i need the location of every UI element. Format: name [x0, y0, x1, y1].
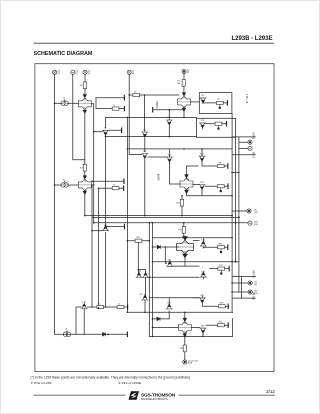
junction I1 [54, 103, 56, 105]
wire row y277.2 [149, 276, 199, 278]
wire bus y261.8 [153, 261, 239, 263]
svg-text:[2]: [2] [88, 73, 91, 75]
wire P2 vertical [73, 74, 85, 159]
svg-text:T13: T13 [201, 120, 205, 122]
svg-text:(*) In the L293 these points a: (*) In the L293 these points are not ext… [31, 376, 191, 380]
wire pair T31T32 bottom [184, 257, 186, 266]
resistor R14 [97, 305, 104, 308]
wire R12 to pair T31T32 [184, 233, 185, 238]
transistor T34 [136, 272, 142, 278]
vertical rail x152.5 [152, 223, 154, 337]
wire T23 base [129, 154, 142, 156]
wire P1 to I1 [55, 102, 63, 104]
wire R19 row [206, 324, 217, 326]
substrate mark cell6 [220, 249, 221, 253]
cell9 resistor R19 [218, 324, 225, 327]
svg-text:(11) [6]: (11) [6] [253, 270, 256, 278]
wire pair T8T9 right vertex to box1 [191, 101, 200, 103]
resistor R7 [216, 101, 223, 104]
wire P1 vertical rail [54, 74, 56, 334]
bar cell7 [228, 266, 230, 270]
wire R15 to bar [124, 306, 127, 308]
bar box1 [226, 101, 228, 105]
cell3 transistor T29 [199, 156, 205, 162]
svg-text:T30: T30 [200, 182, 204, 184]
bar base row4 [123, 186, 125, 190]
wire R20 to GND pin [184, 352, 186, 360]
wire T35 emitter drop [144, 300, 146, 312]
wire T33 base [165, 247, 166, 263]
vertical rail x127.4 [126, 117, 128, 312]
wire mirror link [95, 98, 97, 109]
svg-text:3/12: 3/12 [266, 389, 275, 394]
resistor R20 [183, 345, 186, 352]
resistor R17 [218, 267, 225, 270]
cell4 transistor T30 [199, 185, 205, 191]
wire cell3 row [187, 165, 199, 167]
transistor T35 [142, 294, 148, 300]
resistor R3 [83, 82, 86, 89]
svg-text:T26: T26 [186, 188, 190, 190]
wire R19 to bar [224, 324, 227, 326]
wire T24 collector [169, 149, 171, 157]
input pair T25 T26 [180, 174, 193, 193]
transistor T24 [166, 157, 172, 163]
transistor T40 [102, 225, 108, 231]
wire T12 to R7 [203, 102, 216, 104]
diode D1 [157, 245, 160, 248]
wire T7 base [94, 131, 103, 133]
transistor T13 [199, 123, 205, 129]
wire T41 to R14 [87, 306, 97, 308]
pin VSS (5) [182, 69, 186, 73]
wire I2 to pair [67, 184, 78, 186]
wire cell4 link [205, 185, 217, 187]
transistor T33 [167, 260, 173, 266]
wire mirror base row 2 left [96, 108, 112, 110]
wire rail link y172.5 [232, 172, 239, 174]
resistor R6 [112, 107, 119, 110]
wire R6 to bar [119, 108, 124, 110]
substrate mark box2 [218, 125, 219, 129]
svg-text:T32: T32 [184, 251, 188, 253]
output box 2 [197, 118, 236, 137]
resistor R4 [83, 164, 86, 171]
svg-text:1k: 1k [134, 91, 136, 93]
wire R21 drop [137, 242, 139, 273]
svg-text:T12: T12 [201, 95, 205, 97]
svg-text:[8]: [8] [254, 284, 257, 286]
wire pair T31T32 base [153, 246, 158, 248]
wire T7 emitter to bus [105, 135, 107, 138]
wire pin OUT1b [239, 147, 248, 149]
wire bar to pair T8T9 bottom [154, 109, 185, 111]
wire cell6 top row [153, 238, 233, 241]
wire pair T3T4 down to mid bus [84, 194, 86, 215]
wire row y297.7 [149, 297, 199, 299]
pin IN2 (4) [127, 70, 131, 74]
bar base T9 [152, 108, 154, 112]
transistor T10 [166, 120, 172, 126]
wire R16 to bar [224, 246, 227, 248]
wire cell8 top [193, 296, 202, 298]
bar cell8 [227, 304, 229, 308]
resistor R12 [182, 226, 185, 233]
svg-text:MICROELECTRONICS: MICROELECTRONICS [141, 398, 168, 401]
wire P4 down [128, 74, 130, 154]
input pair T1 T2 [78, 94, 91, 113]
resistor R18 [218, 305, 225, 308]
junction pair2 right [91, 184, 93, 186]
bar bottom bus [126, 332, 128, 336]
svg-text:[11]: [11] [254, 212, 258, 214]
wire pair T37T38 base [153, 327, 179, 329]
wire R17 row [210, 268, 218, 270]
wire pair T1T2 to R4 [84, 113, 86, 164]
wire right corner links [241, 277, 243, 299]
svg-text:[13]: [13] [254, 293, 258, 295]
input pair T8 T9 [178, 92, 191, 111]
wire T23 emitter to bus1 [144, 159, 146, 215]
output box 1 [199, 93, 232, 114]
svg-text:T46: T46 [201, 325, 205, 327]
bar cell6 [227, 245, 229, 249]
wire P4 to R2 [129, 94, 133, 96]
wire cell3 top bus [127, 148, 232, 150]
wire T41 base row [76, 307, 81, 334]
wire cell3 link [202, 161, 217, 166]
wire T33 row [173, 265, 199, 267]
mid bus 2 [94, 222, 248, 224]
svg-text:T33: T33 [168, 259, 172, 261]
svg-text:10k: 10k [177, 83, 180, 85]
wire T40 collector bar [106, 226, 124, 228]
wire R21 row [127, 240, 149, 242]
wire cell6 link [203, 246, 217, 249]
wire R8 to bar [222, 123, 226, 125]
pin OUT2b [248, 221, 252, 225]
svg-text:[2]: [2] [57, 73, 60, 75]
vertical rail x100 [98, 188, 100, 307]
schematic frame [35, 64, 274, 372]
bar cell9 [227, 323, 229, 327]
right rail B [235, 137, 237, 261]
wire R17 to bar [225, 268, 229, 270]
wire pair4 to T30 [193, 184, 199, 186]
wire mirror base row 1 [96, 97, 124, 99]
svg-text:T38: T38 [184, 332, 188, 334]
current source I1 [61, 101, 68, 105]
wire R18 to bar [225, 305, 227, 307]
wire R3 to pair T1T2 [84, 89, 86, 95]
transistor T34b [142, 272, 148, 278]
wire R11 bottom to bus [181, 206, 183, 216]
wire I1 to pair [67, 102, 78, 104]
transistor T7 [102, 130, 108, 136]
resistor R2 [133, 93, 140, 96]
wire pair2 right rail [91, 185, 93, 307]
wire T40 stub [105, 233, 107, 307]
wire R9 to bar [224, 165, 227, 167]
svg-text:SCHEMATIC DIAGRAM: SCHEMATIC DIAGRAM [34, 51, 93, 57]
transistor T12 [200, 98, 206, 104]
bar box2 [226, 122, 228, 126]
wire pair T37T38 to T46 [191, 327, 200, 329]
svg-text:T11: T11 [143, 129, 147, 131]
mid bus 3 [92, 216, 239, 218]
right rail A [231, 114, 233, 313]
svg-text:R18: R18 [220, 303, 225, 305]
bottom bus y334.3 [55, 333, 127, 335]
svg-text:② Pins of L293E.: ② Pins of L293E. [118, 381, 142, 385]
wire pin OUT3b [232, 291, 248, 293]
wire R13 to bar [119, 187, 123, 189]
svg-text:I2: I2 [63, 179, 66, 181]
current source I3 [63, 332, 70, 336]
pin OUT3b [248, 290, 252, 294]
wire pin OUT1a [239, 141, 248, 143]
wire pin label stub 2 [232, 154, 255, 156]
svg-text:R19: R19 [219, 322, 224, 324]
svg-text:I3: I3 [66, 329, 69, 331]
wire T36 stub [168, 298, 170, 319]
svg-text:R16: R16 [219, 244, 224, 246]
svg-text:T44: T44 [201, 271, 205, 273]
wire P5 stub [183, 74, 185, 80]
pin GND [183, 360, 187, 364]
substrate mark cell7 [221, 270, 222, 274]
wire pin label stub 1 [232, 136, 255, 138]
resistor R21 [135, 239, 142, 242]
svg-text:[9]: [9] [132, 73, 135, 75]
svg-text:[6,N]: [6,N] [188, 363, 193, 365]
svg-text:T41: T41 [82, 302, 86, 304]
wire T13 to R8 [206, 123, 216, 125]
svg-text:[14]: [14] [254, 224, 258, 226]
bar T40 [124, 224, 126, 228]
wire R7 to bar [223, 102, 226, 104]
wire bus2 to R12 [183, 223, 185, 227]
junction I2 [54, 184, 56, 186]
diode D2 [157, 317, 160, 320]
bar T7 collector [121, 128, 123, 132]
diode D3 [103, 333, 106, 336]
wire pin OUT3a [232, 282, 248, 284]
current source I2 [61, 183, 68, 187]
svg-text:1k: 1k [113, 105, 115, 107]
pin OUT1b [248, 146, 252, 150]
resistor R8 [215, 122, 222, 125]
svg-text:① Pins of L293: ① Pins of L293 [31, 381, 52, 385]
resistor R11 [180, 199, 183, 206]
wire pin OUT2a [232, 210, 247, 212]
pin VS (1) [53, 70, 57, 74]
bar base row1 [123, 96, 125, 100]
pin OUT3a [248, 281, 252, 285]
svg-text:R9: R9 [219, 162, 222, 164]
wire mirror base row 3 [92, 180, 123, 182]
substrate mark cell4 [220, 188, 221, 192]
wire cell7 bottom [202, 277, 204, 279]
input pair T3 T4 [78, 175, 91, 194]
cell7 transistor T44 [200, 271, 206, 277]
bus y312.3 [127, 311, 232, 313]
svg-text:(*) [5]: (*) [5] [253, 152, 256, 158]
wire P1 to I2 [55, 184, 63, 186]
cell6 transistor T43 [200, 240, 206, 246]
transistor T36 [166, 303, 172, 309]
wire T11 to T23 [144, 138, 146, 152]
wire R1 to pair T8T9 [183, 86, 185, 92]
wire T7 collector [106, 117, 121, 130]
transistor T41 [81, 303, 87, 309]
input pair T37 T38 [178, 318, 191, 337]
svg-text:R7: R7 [218, 99, 221, 101]
header rule [34, 42, 275, 45]
wire T41 emitter [83, 309, 85, 335]
pin OUT1a [248, 140, 252, 144]
svg-text:1k: 1k [98, 303, 100, 305]
svg-text:T35: T35 [139, 294, 143, 296]
bar cell4 [227, 184, 229, 188]
pin EN (2) [71, 70, 75, 74]
wire R14 to R15 [104, 306, 117, 308]
svg-text:R21: R21 [136, 237, 141, 239]
wire pair T25T26 bottom to cell4 [187, 193, 233, 196]
svg-text:T34: T34 [138, 271, 142, 273]
wire T24 base link [148, 156, 167, 158]
cell8 transistor T45 [199, 298, 205, 304]
wire R4 to pair T3T4 [84, 171, 86, 176]
bar base row3 [123, 179, 125, 183]
bar cell3 [227, 164, 229, 168]
wire P3 stub [84, 74, 86, 82]
svg-text:I1: I1 [63, 98, 66, 100]
wire D1 to pair T31T32 [160, 246, 178, 248]
vertical rail x149.3 [148, 223, 150, 337]
bar base row2 [123, 106, 125, 110]
wire T34 stub [138, 270, 145, 296]
svg-text:[9]: [9] [187, 72, 190, 74]
svg-text:T23: T23 [143, 151, 147, 153]
resistor R13 [112, 187, 119, 190]
transistor T11 [142, 132, 148, 138]
svg-text:Ik = 64 x: Ik = 64 x [246, 93, 249, 103]
wire cell3 top [201, 149, 203, 156]
wire R10 to bar [224, 185, 227, 187]
svg-text:(3) [4]: (3) [4] [253, 132, 256, 139]
svg-text:D2048: D2048 [156, 101, 159, 109]
input pair T31 T32 [177, 236, 194, 258]
transistor T23 [142, 154, 148, 160]
resistor R15 [117, 305, 124, 308]
wire T10 emitter [168, 110, 170, 137]
wire R2 to pair T8T9 [140, 95, 179, 131]
pin IN1 (3) [83, 70, 87, 74]
svg-text:1k: 1k [113, 185, 115, 187]
wire mirror base row 4 left [99, 187, 113, 189]
svg-text:[1]: [1] [76, 73, 79, 75]
wire T24 emitter [170, 162, 181, 184]
pin group3 label stub 1 [232, 276, 255, 278]
cell9 transistor T46 [200, 328, 206, 334]
wire T40 feed [105, 137, 107, 226]
wire pair T8T9 down to bus [183, 111, 185, 117]
resistor R1 [182, 79, 185, 86]
footer rule right [179, 394, 276, 397]
footer rule left [34, 394, 126, 397]
bus upper mid [106, 116, 197, 118]
svg-text:L293B - L293E: L293B - L293E [231, 36, 272, 42]
pin group3 label stub 2 [232, 297, 255, 299]
svg-text:R17: R17 [219, 265, 224, 267]
right rail C [238, 137, 240, 292]
wire pair T25T26 top [186, 166, 188, 175]
wire D2 row [153, 318, 170, 320]
resistor R16 [218, 246, 225, 249]
pin OUT2a [247, 209, 251, 213]
svg-text:1k: 1k [118, 303, 120, 305]
wire T30 drop [201, 189, 203, 196]
resistor R10 [217, 185, 224, 188]
substrate mark box1 [219, 105, 220, 109]
wire pair T37T38 top [184, 312, 186, 317]
bar row bottom [127, 305, 129, 309]
bus y136.6 [106, 136, 197, 138]
wire cell8 link [202, 303, 218, 307]
junction bus upper [183, 117, 185, 119]
wire cell9 bottom [149, 319, 232, 337]
ST logo triangle [129, 391, 140, 400]
mid bus 1 [85, 215, 232, 217]
wire pair1 right vertex rail [91, 104, 93, 223]
wire GND chain [184, 337, 186, 345]
wire R11 top [181, 196, 183, 200]
wire T40 base [92, 230, 102, 232]
resistor R9 [217, 164, 224, 167]
svg-text:D2048: D2048 [157, 173, 160, 181]
